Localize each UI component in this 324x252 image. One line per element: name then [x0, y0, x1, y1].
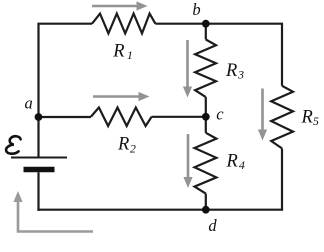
resistor R2 [91, 108, 152, 127]
current arrow beside R5 [258, 89, 267, 141]
wire R2 to node c [152, 116, 206, 118]
svg-text:c: c [216, 104, 224, 123]
current arrow above R2 [93, 92, 150, 101]
node d [202, 206, 210, 214]
current arrow beside R3 [183, 40, 192, 98]
wire R5 to bottom right corner [281, 148, 283, 209]
resistor R3 [195, 40, 216, 98]
current arrow beside R4 [183, 134, 192, 188]
current arrow above R1 [92, 1, 148, 10]
wire top (node a corner to node b to top-right corner) [39, 24, 93, 157]
resistor R5 [271, 86, 293, 149]
battery EMF source [11, 158, 67, 170]
svg-text:d: d [208, 216, 217, 235]
wire R3 to node c [205, 97, 207, 133]
battery short thick plate [24, 167, 55, 173]
node b [202, 20, 210, 28]
svg-text:a: a [25, 93, 33, 112]
wire battery to bottom [37, 172, 39, 211]
battery long plate [11, 157, 67, 159]
resistor R4 [195, 133, 217, 194]
node a [35, 113, 43, 121]
svg-text:b: b [192, 0, 200, 19]
EMF script E label [6, 136, 21, 153]
wire node b down to R3 [205, 24, 207, 40]
node c [202, 113, 210, 121]
wire a to R2 [39, 116, 92, 118]
wire top right segment [155, 24, 282, 86]
wire bottom [37, 209, 283, 211]
resistor R1 [92, 14, 155, 34]
current arrow bottom left (into battery) [13, 191, 93, 232]
wire R4 to node d [205, 194, 207, 210]
